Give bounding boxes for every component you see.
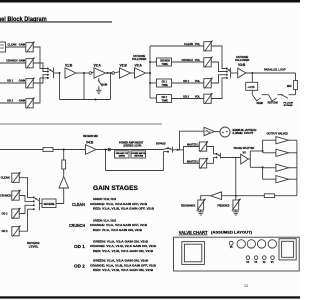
gain stages entry OD 1: [74, 239, 156, 253]
resistor reverb return: [62, 160, 66, 169]
wire master branches: [184, 147, 200, 164]
wire section2 input: [0, 149, 43, 151]
svg-text:V3:A: V3:A: [135, 64, 143, 68]
svg-text:GAIN: GAIN: [101, 83, 107, 86]
svg-text:CRUNCH: CRUNCH: [0, 194, 11, 198]
svg-text:VOL: VOL: [195, 42, 201, 46]
svg-text:GAIN STAGES: GAIN STAGES: [93, 185, 139, 192]
potentiometer CLEAN GAIN: [26, 42, 35, 53]
svg-text:GREEN: V1:A, V2:A GAIN ON, V2:: GREEN: V1:A, V2:A GAIN ON, V2:B: [93, 239, 148, 243]
svg-text:OD 1: OD 1: [74, 244, 85, 250]
wire reverb od1 to dots: [19, 205, 33, 213]
svg-text:V5: V5: [243, 151, 247, 155]
svg-text:V1:B: V1:B: [65, 64, 73, 68]
node push branch: [262, 150, 264, 152]
selector arm to V1:B: [49, 68, 60, 79]
wire od1 tone to vol: [172, 82, 205, 84]
svg-text:V3:B: V3:B: [238, 63, 246, 67]
svg-text:PHASE SPLITTER: PHASE SPLITTER: [234, 147, 255, 150]
svg-text:BYPASS: BYPASS: [284, 104, 293, 107]
potentiometer reverb CRUNCH: [12, 190, 21, 201]
chassis outline: [174, 237, 300, 271]
wire V2:A out: [106, 72, 112, 74]
triode V2:A: [94, 64, 106, 79]
svg-text:TONE: TONE: [162, 100, 169, 102]
potentiometer reverb OD 2: [12, 226, 21, 237]
potentiometer MASTER 1: [199, 141, 208, 152]
output valve position 1: [237, 240, 245, 248]
wire crunch row: [0, 62, 26, 64]
triode V2:B: [120, 64, 131, 79]
node V1:B output: [83, 72, 85, 74]
potentiometer OD 1 VOL: [204, 78, 213, 89]
wire reverb amp to reverb box: [56, 188, 64, 204]
heading VALVE CHART (ASSUMED LAYOUT): [179, 230, 252, 236]
svg-text:OD 1: OD 1: [2, 212, 9, 216]
wires to output valves: [263, 140, 276, 179]
wire feedback to presence node: [222, 195, 265, 197]
box REVERB: [42, 199, 56, 208]
switch GAIN (V2:A): [98, 78, 107, 86]
svg-text:RESONANCE: RESONANCE: [181, 205, 196, 208]
output valve 2: [276, 149, 289, 156]
valve V2 position: [263, 256, 267, 264]
svg-text:SEND: SEND: [257, 102, 264, 105]
svg-text:CRUNCH: CRUNCH: [6, 59, 17, 63]
wire input to clean gain: [6, 46, 27, 48]
svg-text:-∞/10: -∞/10: [247, 85, 255, 89]
switch contact before V2:B: [112, 72, 120, 75]
svg-text:OD 1: OD 1: [183, 79, 190, 83]
svg-text:VOL: VOL: [195, 95, 201, 99]
bypass selector arm: [169, 147, 184, 153]
output valve position 4: [268, 240, 276, 248]
channel selector dots (gain side): [47, 68, 49, 79]
svg-text:GAIN: GAIN: [19, 43, 26, 47]
ground (V2:A gain switch): [96, 86, 102, 93]
node presence: [235, 195, 237, 197]
svg-text:POWER AMP IN: POWER AMP IN: [132, 152, 146, 155]
tone distribution bus: [149, 46, 151, 98]
wire reverb clean to dots: [19, 178, 33, 198]
svg-text:(RETURN): (RETURN): [134, 156, 143, 158]
svg-text:CRUNCH: CRUNCH: [160, 61, 170, 63]
wire series loop to bypass selector: [115, 148, 168, 149]
svg-text:V2:A: V2:A: [94, 64, 102, 68]
svg-text:BYPASS: BYPASS: [156, 143, 166, 146]
wire V1:B out: [76, 72, 89, 74]
svg-text:REVERB: REVERB: [44, 202, 55, 206]
phase splitter V5: [234, 147, 255, 164]
loop level box +4/-10: [246, 73, 258, 90]
reverb selector dots: [33, 196, 35, 210]
reverb branch: vertical from node: [63, 150, 65, 161]
svg-text:MASTER 2: MASTER 2: [187, 159, 199, 163]
svg-text:(ASSUMED LAYOUT): (ASSUMED LAYOUT): [211, 231, 252, 235]
channel selector dots (vol side): [226, 68, 228, 79]
svg-text:VOL: VOL: [195, 58, 201, 62]
wire resistor to node: [53, 149, 86, 151]
svg-text:V2:B: V2:B: [120, 64, 128, 68]
svg-text:GREEN: V1:B, V2:B: GREEN: V1:B, V2:B: [93, 197, 116, 201]
wire V3:A out to tone bus: [146, 72, 151, 74]
potentiometer RESONANCE: [197, 199, 206, 211]
mains transformer (left square): [182, 242, 205, 265]
potentiometer MIX: [287, 73, 297, 95]
label POWER AMP INSERT (SERIES LOOP): [119, 141, 144, 147]
svg-text:REVERB MIX: REVERB MIX: [83, 135, 98, 138]
wire NFB amp to resonance: [201, 196, 211, 200]
wire clean vol to selector: [211, 46, 226, 69]
jack SEND: [252, 95, 263, 105]
potentiometer CRUNCH VOL: [204, 57, 213, 68]
node V1:B input: [59, 72, 61, 74]
svg-text:TONE: TONE: [162, 85, 169, 87]
svg-text:FOLLOWER: FOLLOWER: [235, 59, 249, 62]
potentiometer reverb CLEAN: [12, 172, 21, 183]
output valve 4: [276, 176, 289, 183]
phase splitter output wires: [248, 151, 262, 167]
svg-text:PRE-AMP OUT: PRE-AMP OUT: [116, 152, 129, 155]
svg-text:ORANGE: V1:A, V1:B, V2:A GAIN: ORANGE: V1:A, V1:B, V2:A GAIN ON, V2:B: [90, 244, 156, 248]
node reverb sum: [63, 149, 65, 151]
svg-text:MIX: MIX: [287, 84, 292, 88]
wire level box to send jack: [251, 90, 253, 94]
wires masters to selector: [207, 147, 216, 164]
switch contact before V2:A: [89, 72, 94, 75]
wire od2 vol to selector: [211, 78, 226, 99]
wire reverb crunch to dots: [19, 196, 33, 202]
switch contact series loop: [108, 148, 111, 151]
svg-text:(SERIES LOOP): (SERIES LOOP): [124, 144, 142, 147]
wire od1 row: [0, 82, 26, 84]
valve V1 position: [271, 256, 275, 264]
wire to emulated out tap: [178, 131, 205, 150]
svg-text:TONE: TONE: [162, 64, 169, 66]
svg-text:PARALLEL LOOP: PARALLEL LOOP: [264, 68, 286, 72]
svg-text:RED: V1:A, V2:A GAIN ON, V2:B: RED: V1:A, V2:A GAIN ON, V2:B: [93, 228, 142, 232]
page bottom border: [0, 296, 300, 298]
potentiometer CLEAN VOL: [204, 41, 213, 52]
output transformer (right square): [279, 239, 296, 260]
svg-text:RED: V1:A, V1:B, V2:A GAIN ON,: RED: V1:A, V1:B, V2:A GAIN ON, V2:B: [93, 249, 153, 253]
node pull branch: [262, 166, 264, 168]
wire od1 vol to selector: [211, 75, 226, 83]
svg-text:GAIN: GAIN: [19, 99, 26, 103]
triode V3:A cathode follower: [132, 55, 146, 78]
master selector arm: [218, 153, 241, 159]
wire clean gain to bus: [33, 47, 47, 69]
node V2:A output: [107, 72, 109, 74]
page top border: [0, 0, 300, 3]
output valve position 2: [247, 240, 255, 248]
box OD 2 TONE: [150, 95, 172, 103]
svg-text:OD 1: OD 1: [7, 79, 14, 83]
NFB amp (points left): [211, 192, 222, 200]
output bus to transformer: [289, 140, 297, 196]
valve V5 position: [229, 241, 233, 249]
svg-text:CRUNCH: CRUNCH: [182, 58, 193, 62]
svg-text:OUTPUT VALVES: OUTPUT VALVES: [267, 132, 289, 136]
svg-text:RETURN: RETURN: [268, 102, 278, 105]
svg-text:OD 2: OD 2: [7, 99, 14, 103]
node loop split: [105, 149, 107, 151]
wire od2 row: [0, 102, 26, 104]
valve V3 position: [254, 256, 258, 264]
NFB vertical to phase splitter: [235, 158, 237, 200]
potentiometer PRESENCE: [232, 199, 241, 211]
svg-text:LINE OUT: LINE OUT: [233, 132, 255, 135]
potentiometer OD 2 GAIN: [26, 98, 35, 109]
svg-text:OD 1: OD 1: [162, 82, 168, 84]
output valve 3: [276, 164, 289, 171]
svg-text:GAIN: GAIN: [19, 79, 26, 83]
speaker emulation amp: [204, 127, 215, 135]
wire resistor to reverb amp: [63, 169, 65, 177]
wire V2:B to V3:A: [131, 72, 135, 74]
svg-text:(SEND): (SEND): [119, 156, 126, 158]
output valve position 3: [257, 240, 265, 248]
wire crunch tone to vol: [172, 61, 205, 63]
gain stages entry OD 2: [74, 259, 156, 273]
jack RETURN: [262, 95, 278, 105]
wire od2 gain to bus: [33, 78, 47, 103]
selector arm to V3:B: [228, 68, 238, 79]
wire V3:B out / parallel loop: [246, 72, 296, 74]
svg-text:RED: V1:A, V1:B, V2:A GAIN OFF: RED: V1:A, V1:B, V2:A GAIN OFF, V2:B: [93, 207, 154, 211]
box CRUNCH TONE: [150, 58, 172, 66]
svg-text:GAIN: GAIN: [19, 59, 26, 63]
svg-text:RED: V1:A, V1:B, V2:A GAIN ON,: RED: V1:A, V1:B, V2:A GAIN ON, V2:B: [93, 268, 153, 272]
potentiometer reverb OD 1: [12, 208, 21, 219]
svg-text:GREEN: V1:A, V2:B: GREEN: V1:A, V2:B: [93, 218, 116, 222]
ground presence: [233, 210, 239, 215]
bypass selector dots: [167, 147, 169, 152]
valve V4 position: [246, 256, 250, 264]
section divider: [0, 123, 162, 125]
wire feedback: [275, 195, 297, 197]
triode V3:B cathode follower: [235, 56, 249, 78]
triode V4:B reverb mix: [83, 135, 98, 154]
potentiometer CRUNCH GAIN: [26, 58, 35, 69]
svg-text:ORANGE: V1:A, V2:A GAIN OFF, V: ORANGE: V1:A, V2:A GAIN OFF, V2:B: [90, 202, 147, 206]
svg-text:ORANGE: V1:A, V2:A GAIN OFF, V: ORANGE: V1:A, V2:A GAIN OFF, V2:B: [90, 223, 147, 227]
potentiometer OD 1 GAIN: [26, 78, 35, 89]
potentiometer MASTER 2: [199, 158, 208, 169]
svg-text:VOL: VOL: [195, 79, 201, 83]
title: el Block Diagram: [0, 16, 112, 23]
reverb recovery amp (points up): [59, 177, 69, 189]
gain stages entry CRUNCH: [69, 218, 147, 232]
svg-text:13: 13: [244, 284, 248, 288]
series loop bypass wire: [106, 150, 168, 171]
svg-text:MASTER 1: MASTER 1: [187, 143, 199, 147]
svg-text:CRUNCH: CRUNCH: [69, 223, 85, 229]
svg-text:FOLLOWER: FOLLOWER: [132, 58, 146, 61]
reverb selector arm: [35, 198, 39, 200]
svg-text:CLEAN: CLEAN: [72, 202, 85, 208]
output valve 1: [276, 137, 289, 144]
master selector dots: [216, 153, 218, 159]
svg-text:PRESENCE: PRESENCE: [218, 205, 230, 208]
node master split: [177, 149, 179, 151]
wire crunch gain to bus: [33, 63, 47, 72]
bypass bus section1: [60, 72, 112, 101]
wire od2 tone to vol: [172, 98, 205, 100]
svg-text:OD 2: OD 2: [183, 95, 190, 99]
svg-text:CLEAN: CLEAN: [184, 42, 193, 46]
svg-text:LEVEL: LEVEL: [29, 245, 39, 249]
svg-text:OD 2: OD 2: [2, 229, 9, 233]
svg-text:GREEN: V1:A, V2:A GAIN ON, V2:: GREEN: V1:A, V2:A GAIN ON, V2:B: [93, 259, 148, 263]
svg-text:ORANGE: V1:A, V1:B, V2:A GAIN: ORANGE: V1:A, V1:B, V2:A GAIN OFF, V2:B: [90, 263, 156, 267]
svg-text:OD 2: OD 2: [74, 264, 85, 270]
ground resonance: [198, 210, 204, 215]
wire reverb od2 to dots: [19, 209, 33, 231]
potentiometer OD 2 VOL: [204, 93, 213, 104]
wire crunch vol to selector: [211, 62, 226, 72]
svg-text:CLEAN: CLEAN: [1, 176, 10, 180]
wire V4:B out: [96, 149, 115, 151]
wire od1 gain to bus: [33, 75, 47, 83]
jack box PRE-AMP OUT (SEND): [115, 151, 130, 158]
svg-text:OD 2: OD 2: [162, 97, 168, 99]
wire clean vol row: [150, 45, 204, 47]
switch FX LOOP BYPASS: [278, 94, 296, 107]
XLR EMULATED LINE OUT: [215, 127, 257, 137]
input box (cut at left edge): [0, 42, 6, 52]
svg-text:V4:B: V4:B: [86, 141, 94, 145]
svg-text:CLEAN: CLEAN: [8, 43, 17, 47]
resistor (reverb mix): [43, 148, 53, 152]
triode V1:B: [65, 64, 76, 79]
jack box POWER AMP IN (RETURN): [131, 151, 146, 158]
resistor feedback: [264, 194, 274, 198]
label REVERB LEVEL: [27, 241, 40, 249]
box OD 1 TONE: [150, 79, 172, 87]
gain stages entry CLEAN: [72, 197, 154, 211]
